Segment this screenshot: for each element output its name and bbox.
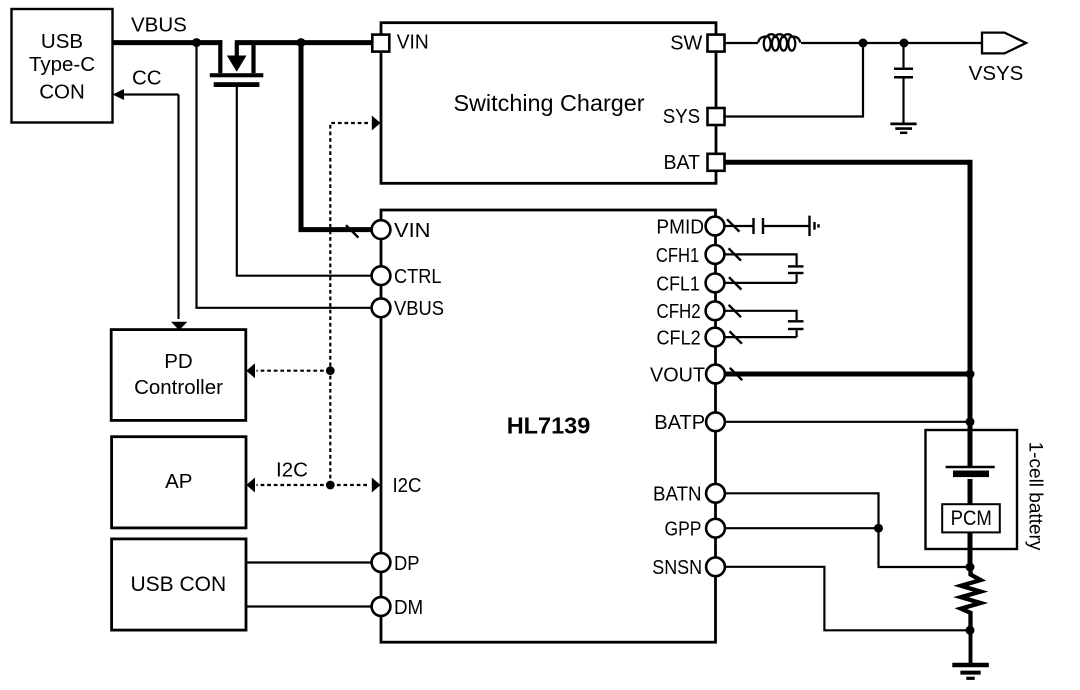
svg-text:Switching Charger: Switching Charger bbox=[453, 90, 644, 116]
pin VBUS bbox=[372, 298, 391, 317]
junction node GPP/BATN bbox=[874, 524, 883, 533]
svg-text:HL7139: HL7139 bbox=[507, 413, 591, 439]
dashed wire to PD Controller bbox=[257, 370, 331, 372]
svg-text:I2C: I2C bbox=[276, 458, 308, 481]
ground GND3 bbox=[952, 665, 989, 678]
resistor R-SNS bbox=[961, 567, 981, 630]
pin SW bbox=[708, 35, 725, 52]
svg-text:CTRL: CTRL bbox=[394, 265, 442, 288]
IC U1: HL7139 bbox=[381, 210, 716, 642]
slash mark on CFH2 wire bbox=[729, 305, 741, 317]
svg-text:BATN: BATN bbox=[653, 483, 702, 506]
pin CFL2 bbox=[706, 328, 725, 347]
wire BAT to battery (thick) bbox=[725, 162, 971, 430]
svg-text:VOUT: VOUT bbox=[650, 363, 705, 386]
block U6: USB CON bbox=[112, 539, 246, 630]
wire SNSN to sense resistor bottom bbox=[725, 567, 971, 631]
wire SYS feedback bbox=[725, 43, 864, 117]
pin GPP bbox=[706, 519, 725, 538]
pin CTRL bbox=[372, 266, 391, 285]
svg-text:USB CON: USB CON bbox=[130, 573, 226, 596]
pin BAT bbox=[708, 154, 725, 171]
pin SNSN bbox=[706, 557, 725, 576]
svg-text:PD: PD bbox=[164, 350, 192, 373]
svg-text:I2C: I2C bbox=[393, 474, 422, 497]
svg-text:SW: SW bbox=[670, 32, 703, 55]
svg-text:VBUS: VBUS bbox=[131, 14, 187, 37]
capacitor C-FLY2 bbox=[788, 321, 804, 337]
junction node on dashed net (PD) bbox=[326, 366, 335, 375]
wire VBUS to HL7139 VBUS pin bbox=[197, 43, 371, 308]
battery cell BT1 bbox=[946, 430, 995, 504]
pin CFH1 bbox=[706, 245, 725, 264]
block U5: AP bbox=[112, 437, 246, 528]
wire Q1 gate to HL7139 CTRL bbox=[237, 87, 371, 276]
svg-text:DP: DP bbox=[394, 552, 420, 575]
junction node sense bottom bbox=[966, 626, 975, 635]
svg-text:Type-C: Type-C bbox=[29, 53, 95, 76]
slash mark on CFL1 wire bbox=[729, 277, 741, 289]
transistor Q1 (input FET) bbox=[210, 40, 263, 87]
dashed wire I2C to AP bbox=[257, 484, 331, 486]
block U4: PD Controller bbox=[111, 330, 246, 421]
port VSYS bbox=[969, 33, 1026, 85]
wire SW to inductor bbox=[725, 42, 759, 44]
wire USB CON to DP bbox=[246, 561, 371, 563]
PCM protection module bbox=[942, 504, 1000, 532]
wire VBUS-B to HL7139 VIN (thick) bbox=[301, 43, 371, 230]
svg-text:CC: CC bbox=[132, 67, 162, 90]
svg-text:GPP: GPP bbox=[665, 518, 702, 541]
pin BATN bbox=[706, 484, 725, 503]
ground GND1 bbox=[890, 124, 916, 133]
junction node VSYS cap bbox=[900, 39, 909, 48]
wire VBUS rail right (Q1 drain to charger VIN) bbox=[235, 40, 373, 45]
pin BATP bbox=[706, 412, 725, 431]
svg-text:CFL2: CFL2 bbox=[657, 327, 701, 350]
slash mark on VOUT wire bbox=[730, 368, 742, 380]
wire CC down to PD controller bbox=[177, 95, 179, 320]
dashed wire CTRL net to Switching Charger bbox=[330, 123, 369, 485]
slash mark on VIN wire bbox=[346, 225, 358, 237]
ground GND2 (PMID) bbox=[810, 216, 819, 236]
junction node on dashed net (I2C) bbox=[326, 481, 335, 490]
slash mark on PMID wire bbox=[727, 219, 739, 231]
pin VIN (Switching Charger) bbox=[372, 35, 389, 52]
svg-text:CFH2: CFH2 bbox=[657, 300, 701, 323]
pin DM bbox=[372, 597, 391, 616]
wire PCM to sense node (thick) bbox=[968, 532, 973, 567]
wire GPP to BATN net bbox=[725, 527, 879, 529]
pin CFL1 bbox=[706, 274, 725, 293]
wire BATP to battery bbox=[725, 421, 971, 423]
svg-text:VBUS: VBUS bbox=[394, 297, 444, 320]
junction node sense top bbox=[966, 563, 975, 572]
svg-text:1-cell battery: 1-cell battery bbox=[1025, 442, 1046, 551]
pin DP bbox=[372, 553, 391, 572]
svg-text:VSYS: VSYS bbox=[969, 62, 1024, 85]
slash mark on CFL2 wire bbox=[730, 331, 742, 343]
wire sense node to ground bbox=[969, 630, 973, 665]
svg-text:CFL1: CFL1 bbox=[656, 272, 699, 295]
dashed wire I2C to HL7139 bbox=[330, 484, 369, 486]
wire CFL2 to C-FLY2 bbox=[725, 336, 797, 338]
battery pack box (1-cell battery) bbox=[926, 430, 1018, 549]
slash mark on CFH1 wire bbox=[729, 248, 741, 260]
junction node SYS bbox=[859, 39, 868, 48]
wire VBUS rail left (USB CON to Q1 source) bbox=[113, 40, 223, 45]
pin PMID bbox=[706, 217, 725, 236]
block U2: USB Type-C connector bbox=[12, 9, 113, 123]
wire USB CON to DM bbox=[246, 605, 371, 607]
wire VOUT to battery (thick) bbox=[725, 372, 971, 377]
svg-text:SNSN: SNSN bbox=[652, 556, 702, 579]
svg-text:USB: USB bbox=[41, 30, 83, 53]
pin VOUT bbox=[706, 365, 725, 384]
wire BATN to sense resistor top bbox=[725, 493, 971, 567]
wire CFL1 to C-FLY1 bbox=[725, 282, 797, 284]
capacitor C-SYS bbox=[894, 43, 913, 123]
junction node VOUT/BAT bbox=[966, 370, 975, 379]
wire PMID to capacitor bbox=[725, 225, 753, 227]
wire CFH2 to C-FLY2 bbox=[725, 311, 797, 320]
svg-text:SYS: SYS bbox=[663, 105, 701, 128]
pin SYS bbox=[708, 108, 725, 125]
inductor L1 bbox=[758, 34, 800, 50]
svg-text:CON: CON bbox=[39, 81, 85, 104]
svg-text:PCM: PCM bbox=[951, 507, 992, 530]
capacitor C-PMID bbox=[754, 218, 809, 234]
svg-text:VIN: VIN bbox=[397, 31, 429, 54]
pin VIN (HL7139) bbox=[372, 220, 391, 239]
wire inductor to VSYS bbox=[801, 42, 982, 44]
pin CFH2 bbox=[706, 301, 725, 320]
svg-text:VIN: VIN bbox=[394, 219, 431, 242]
svg-text:Controller: Controller bbox=[134, 376, 223, 399]
svg-text:CFH1: CFH1 bbox=[656, 244, 699, 267]
svg-text:BATP: BATP bbox=[654, 411, 705, 434]
block U3: Switching Charger bbox=[381, 23, 716, 184]
capacitor C-FLY1 bbox=[788, 266, 804, 283]
junction node VBUS-A bbox=[192, 38, 201, 47]
junction node BATP/BAT bbox=[966, 417, 975, 426]
wire CFH1 to C-FLY1 bbox=[725, 254, 797, 265]
svg-text:BAT: BAT bbox=[664, 151, 701, 174]
svg-text:AP: AP bbox=[165, 470, 192, 493]
svg-text:DM: DM bbox=[394, 596, 423, 619]
svg-text:PMID: PMID bbox=[656, 215, 704, 238]
wire CC (to USB Type-C CON, arrow) bbox=[124, 93, 179, 95]
junction node VBUS-B bbox=[297, 38, 306, 47]
